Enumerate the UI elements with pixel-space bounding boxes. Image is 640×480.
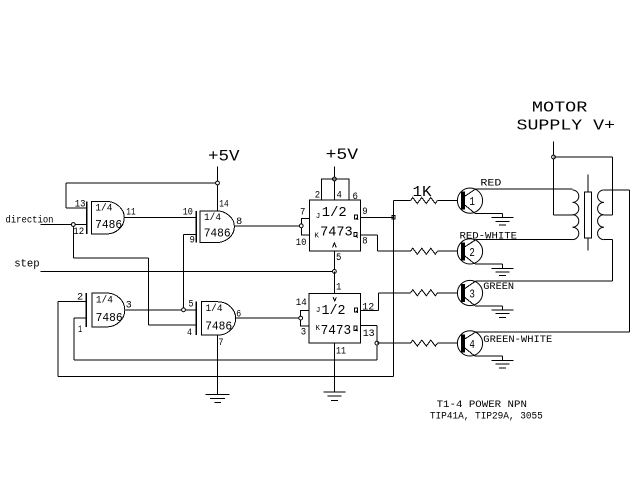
wire U1A pin11 to U1B pin10 [124, 216, 196, 218]
U1D pin 4 label [187, 328, 192, 339]
net label RED [480, 177, 501, 189]
svg-text:7486: 7486 [95, 218, 122, 232]
U1C pin 2 label [77, 293, 83, 304]
svg-text:MOTOR: MOTOR [532, 100, 588, 117]
svg-text:1/4: 1/4 [95, 203, 112, 215]
svg-text:K: K [314, 233, 319, 241]
svg-text:13: 13 [363, 329, 375, 340]
svg-text:2: 2 [315, 191, 320, 202]
XOR gate U1C (1/4 7486) body [86, 293, 125, 327]
net label step [14, 259, 40, 271]
T4 emitter wire [475, 356, 503, 360]
wire U2B pin11 to ground [333, 343, 335, 392]
svg-text:+5V: +5V [326, 146, 359, 164]
U1B label 1/4 [204, 212, 221, 224]
wire row4 to R4 [377, 342, 411, 344]
T1 number label [469, 195, 475, 209]
net label GREEN-WHITE [483, 334, 552, 346]
svg-text:1/4: 1/4 [204, 212, 221, 224]
svg-text:10: 10 [183, 208, 193, 219]
svg-text:1/4: 1/4 [96, 294, 113, 306]
transistor T4 power NPN [457, 331, 482, 356]
svg-text:7486: 7486 [204, 227, 231, 241]
svg-text:7: 7 [300, 207, 305, 218]
wire +5V stem to U1B pin14 [217, 166, 219, 211]
U1D pin 7 label [218, 338, 223, 349]
T3 emitter wire [475, 306, 503, 310]
node +5V feedback junction [216, 181, 220, 185]
svg-text:RED-WHITE: RED-WHITE [460, 230, 518, 242]
node clock junction [333, 270, 337, 274]
T2 emitter wire [475, 264, 503, 268]
svg-text:7473: 7473 [321, 323, 352, 339]
ground T2 emitter [491, 269, 513, 276]
U2B pin 11 label [336, 346, 346, 357]
U2A pin 2 label [315, 191, 320, 202]
svg-text:14: 14 [219, 200, 228, 211]
wire U2A clock pin5 [333, 251, 335, 272]
U1C pin 3 label [126, 301, 132, 312]
note T1-4 POWER NPN [437, 399, 527, 411]
transistor T2 power NPN [457, 239, 482, 264]
svg-text:GREEN: GREEN [483, 281, 514, 293]
U2A output glyph Q-bar [354, 233, 358, 238]
XOR gate U1D (1/4 7486) body [196, 302, 235, 336]
wire T3 collector to winding B bottom (GREEN) [475, 240, 612, 281]
U2A label 1/2 [322, 205, 347, 221]
svg-text:TIP41A, TIP29A, 3055: TIP41A, TIP29A, 3055 [430, 410, 543, 422]
net label SUPPLY V+ [517, 118, 616, 135]
svg-text:6: 6 [236, 310, 241, 321]
wire step to clock node [41, 270, 335, 272]
svg-text:7486: 7486 [205, 319, 232, 333]
junction square Q1 bus [392, 216, 395, 219]
U2A label 7473 [320, 224, 353, 240]
U2A pin 4 label [337, 190, 342, 201]
U2A pin 6 label [353, 192, 358, 203]
svg-text:K: K [316, 325, 321, 333]
U2A pin 8 label [362, 236, 367, 247]
svg-text:9: 9 [362, 207, 367, 218]
wire U1C pin2 feedback from Q1 bus [58, 301, 394, 376]
U2B output glyph Q-bar [354, 326, 358, 331]
U2B label 7473 [321, 323, 352, 339]
wire bus top to R1 [394, 200, 411, 202]
T4 number label [469, 338, 475, 352]
U1C label 1/4 [96, 294, 113, 306]
svg-text:1: 1 [469, 195, 475, 209]
wire motor supply stem [553, 142, 555, 157]
wire direction input [41, 224, 87, 226]
wire direction to U1D pin4 [73, 226, 196, 325]
svg-text:1/2: 1/2 [322, 303, 346, 319]
flip-flop U2A (1/2 7473) body [301, 179, 360, 251]
U2B pin 12 label [362, 302, 374, 313]
wire +5V stem to FF1 [333, 166, 335, 179]
note TIP41A, TIP29A, 3055 [430, 410, 543, 422]
XOR gate U1A (1/4 7486) body [87, 201, 125, 234]
wire T4 collector to winding B top (GREEN-WHITE) [475, 190, 629, 332]
resistor R3 [411, 290, 462, 296]
node motor supply junction [552, 155, 556, 159]
svg-text:3: 3 [301, 328, 306, 339]
svg-text:1/2: 1/2 [322, 205, 347, 221]
wire Q1 bus vertical [393, 201, 395, 377]
transistor T1 power NPN [457, 188, 482, 213]
svg-text:11: 11 [126, 207, 135, 218]
U2B output glyph Q [354, 308, 358, 313]
node U2A J/K input [299, 224, 303, 228]
U1D label 7486 [205, 319, 232, 333]
node Q2-bar junction [375, 341, 379, 345]
U1A label 1/4 [95, 203, 112, 215]
svg-text:11: 11 [336, 346, 346, 357]
svg-text:3: 3 [469, 288, 475, 302]
U1B pin 14 label [219, 200, 228, 211]
svg-text:1: 1 [78, 325, 82, 336]
svg-text:4: 4 [337, 190, 342, 201]
U1B label 7486 [204, 227, 231, 241]
U2B label 1/2 [322, 303, 346, 319]
svg-text:8: 8 [362, 236, 367, 247]
U1B pin 8 label [236, 217, 242, 228]
wire Q2 (U2B pin12) to R3 [360, 293, 410, 311]
U1A pin 11 label [126, 207, 135, 218]
U2A pin 9 label [362, 207, 367, 218]
U1B pin 10 label [183, 208, 193, 219]
net label direction [6, 214, 54, 226]
T3 number label [469, 288, 475, 302]
svg-text:5: 5 [336, 253, 341, 264]
svg-text:4: 4 [469, 338, 475, 352]
U2A input letter K [314, 233, 319, 241]
svg-text:5: 5 [189, 300, 194, 311]
svg-text:7: 7 [218, 338, 223, 349]
svg-text:7473: 7473 [320, 224, 353, 240]
U1C label 7486 [96, 311, 123, 325]
svg-text:SUPPLY V+: SUPPLY V+ [517, 118, 616, 135]
wire U1C pin1 feedback from Q2-bar [74, 318, 377, 360]
U1B pin 9 label [190, 235, 195, 246]
U1A pin 13 label [75, 200, 86, 211]
svg-text:2: 2 [77, 293, 83, 304]
power +5V label (left) [208, 148, 240, 166]
wire Q2-bar (U2B pin13) drop [360, 325, 377, 360]
T2 number label [469, 246, 475, 260]
svg-text:step: step [14, 259, 40, 271]
U1A pin 12 label [73, 227, 84, 238]
XOR gate U1B (1/4 7486) body [196, 211, 234, 243]
svg-text:GREEN-WHITE: GREEN-WHITE [483, 334, 552, 346]
node U1D pin5 junction [182, 308, 186, 312]
svg-text:RED: RED [480, 177, 501, 189]
ground U1 pin7 [206, 394, 230, 402]
svg-text:6: 6 [353, 192, 358, 203]
wire U1B pin8 to FF1 J/K [234, 225, 299, 227]
svg-text:9: 9 [190, 235, 195, 246]
U2A pin 5 label [336, 253, 341, 264]
ground U2 pin11 [323, 392, 345, 400]
flip-flop U2B (1/2 7473) body [301, 293, 361, 343]
resistor R1 value label 1K [413, 184, 432, 201]
U2B pin 13 label [363, 329, 375, 340]
resistor R2 [411, 248, 462, 254]
resistor R4 [411, 340, 462, 346]
ground T4 emitter [491, 361, 513, 368]
net label MOTOR [532, 100, 588, 117]
U2B clock triangle [333, 297, 336, 301]
U2A pin 10 label [296, 238, 307, 249]
svg-text:J: J [316, 213, 321, 221]
svg-text:8: 8 [236, 217, 242, 228]
ground T3 emitter [491, 310, 513, 317]
svg-text:2: 2 [469, 246, 475, 260]
wire supply to winding B center tap [554, 157, 613, 215]
wire Q1-bar (U2A pin8) to R2 [361, 235, 411, 251]
power +5V label (right) [326, 146, 359, 164]
net label RED-WHITE [460, 230, 518, 242]
wire U1C pin3 to U1D pin5 [125, 309, 197, 311]
svg-text:1/4: 1/4 [206, 303, 223, 315]
U2A clock triangle [333, 243, 337, 248]
motor winding B (right coil) [598, 190, 604, 240]
wire U1D pin7 to ground [217, 335, 219, 394]
U1D pin 5 label [189, 300, 194, 311]
svg-text:1: 1 [336, 282, 341, 293]
transistor T3 power NPN [457, 280, 482, 305]
U2B input letter K [316, 325, 321, 333]
svg-text:12: 12 [362, 302, 374, 313]
wire supply to winding A center tap [554, 159, 573, 215]
U2B input letter J [316, 307, 321, 315]
U2B pin 3 label [301, 328, 306, 339]
node FF1 power junction [333, 177, 337, 181]
wire U2B clock pin1 [333, 271, 335, 293]
wire T1 collector to winding A top (RED) [475, 188, 572, 190]
U1D pin 6 label [236, 310, 241, 321]
svg-text:T1-4 POWER NPN: T1-4 POWER NPN [437, 399, 527, 411]
wire U1D pin6 to FF2 J/K [236, 317, 299, 319]
svg-text:1K: 1K [413, 184, 432, 201]
wire T2 collector to winding A bottom (RED-WHITE) [475, 239, 572, 241]
wire Q1 (U2A pin9) to bus [361, 216, 394, 218]
svg-text:4: 4 [187, 328, 192, 339]
U1A label 7486 [95, 218, 122, 232]
node U2B J/K input [299, 316, 303, 320]
wire U1B pin9 feedback [184, 234, 197, 308]
T1 emitter wire [475, 213, 503, 217]
U2B pin 1 label [336, 282, 341, 293]
svg-text:7486: 7486 [96, 311, 123, 325]
U1C pin 1 label [78, 325, 82, 336]
node direction junction [71, 223, 75, 227]
U2A pin 7 label [300, 207, 305, 218]
resistor R1 1K [411, 198, 462, 204]
U2A input letter J [316, 213, 321, 221]
U1D label 1/4 [206, 303, 223, 315]
U2A output glyph Q [354, 215, 358, 220]
U2B pin 14 label [296, 298, 307, 309]
motor winding A (left coil) [573, 190, 579, 240]
wire +5V to U1A pin13 [66, 183, 216, 208]
motor core [584, 174, 591, 250]
ground T1 emitter [491, 218, 513, 225]
svg-text:12: 12 [73, 227, 84, 238]
svg-text:+5V: +5V [208, 148, 240, 166]
svg-text:13: 13 [75, 200, 86, 211]
net label GREEN [483, 281, 514, 293]
svg-text:J: J [316, 307, 321, 315]
svg-text:14: 14 [296, 298, 307, 309]
svg-text:10: 10 [296, 238, 307, 249]
